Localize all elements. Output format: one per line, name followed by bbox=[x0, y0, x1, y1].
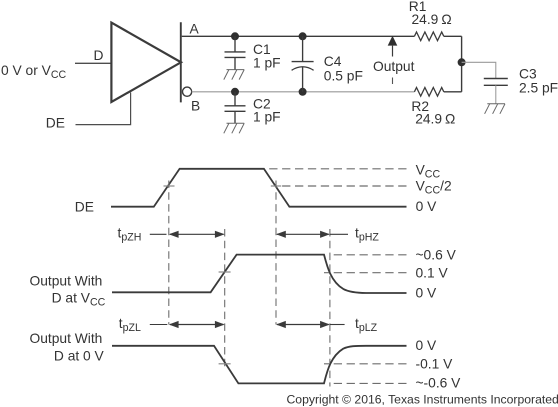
dashed level ~-0.6V bbox=[329, 382, 407, 384]
output bar bbox=[180, 22, 182, 102]
dashed level ~0.6V bbox=[331, 254, 407, 256]
driver U1 (triangle buffer) bbox=[111, 23, 181, 102]
wire R1 to join bbox=[444, 35, 462, 37]
wire A bbox=[182, 35, 415, 37]
svg-text:Output With: Output With bbox=[30, 331, 103, 346]
svg-text:C4: C4 bbox=[324, 54, 342, 69]
wire D input bbox=[75, 62, 111, 64]
output probe arrow bbox=[388, 36, 398, 46]
leader line tpZL bbox=[150, 324, 168, 326]
junction dot B-C2 bbox=[231, 88, 239, 96]
arrow tpLZ bbox=[277, 324, 329, 326]
svg-text:Copyright © 2016, Texas Instru: Copyright © 2016, Texas Instruments Inco… bbox=[287, 393, 558, 407]
svg-text:24.9Ω: 24.9Ω bbox=[412, 12, 452, 27]
tick output2 falling bbox=[219, 363, 231, 365]
capacitor C1 bbox=[225, 36, 246, 69]
svg-text:0 V or VCC: 0 V or VCC bbox=[1, 63, 67, 81]
capacitor C3 bbox=[484, 79, 508, 86]
junction dot B-C4 bbox=[299, 88, 307, 96]
svg-text:DE: DE bbox=[75, 199, 94, 214]
svg-text:A: A bbox=[190, 22, 200, 37]
svg-text:tpHZ: tpHZ bbox=[355, 226, 379, 244]
tick output1 rising bbox=[219, 271, 231, 273]
leader line tpZH bbox=[150, 233, 167, 235]
arrow tpHZ bbox=[277, 233, 329, 235]
svg-text:-0.1 V: -0.1 V bbox=[416, 356, 454, 371]
wire DE enable bbox=[76, 93, 131, 125]
capacitor C4 bbox=[292, 36, 314, 92]
svg-text:D: D bbox=[94, 48, 104, 63]
svg-text:2.5 pF: 2.5 pF bbox=[519, 81, 558, 96]
svg-text:0 V: 0 V bbox=[416, 338, 438, 353]
arrow tpZH bbox=[170, 233, 224, 235]
svg-text:tpZL: tpZL bbox=[119, 316, 141, 334]
inversion bubble bbox=[183, 87, 192, 96]
wire R2 right lead bbox=[444, 91, 462, 93]
svg-text:Output With: Output With bbox=[30, 273, 103, 288]
leader line tpHZ bbox=[330, 233, 348, 235]
dashed vertical v4 bbox=[329, 229, 331, 387]
output probe dashed tail bbox=[392, 78, 394, 85]
svg-text:0 V: 0 V bbox=[416, 286, 438, 301]
svg-text:tpZH: tpZH bbox=[118, 226, 142, 244]
svg-text:~-0.6 V: ~-0.6 V bbox=[416, 376, 462, 391]
junction dot A-C4 bbox=[299, 32, 307, 40]
capacitor C2 bbox=[225, 92, 246, 124]
ground (C2) bbox=[224, 123, 244, 133]
svg-text:VCC/2: VCC/2 bbox=[416, 178, 452, 196]
resistor R1 bbox=[414, 32, 443, 41]
wire B (from bubble) bbox=[192, 91, 415, 93]
svg-text:C3: C3 bbox=[519, 67, 537, 82]
svg-text:1 pF: 1 pF bbox=[253, 110, 281, 125]
waveform DE bbox=[111, 169, 407, 207]
svg-text:tpLZ: tpLZ bbox=[355, 316, 378, 334]
svg-text:~0.6 V: ~0.6 V bbox=[416, 247, 457, 262]
dashed level VCC bbox=[266, 168, 407, 170]
dashed level -0.1V bbox=[324, 363, 407, 365]
svg-text:DE: DE bbox=[46, 116, 65, 131]
svg-text:24.9Ω: 24.9Ω bbox=[415, 111, 455, 126]
svg-text:1 pF: 1 pF bbox=[253, 56, 281, 71]
junction dot output node bbox=[458, 58, 466, 66]
svg-text:D at VCC: D at VCC bbox=[52, 291, 106, 309]
dashed vertical v2 bbox=[224, 229, 226, 368]
dashed level 0.1V bbox=[324, 272, 407, 274]
dashed vertical v3 bbox=[275, 181, 277, 325]
wire node to C3 bbox=[462, 62, 496, 78]
svg-text:0.1 V: 0.1 V bbox=[416, 265, 449, 280]
dashed vertical v1 bbox=[168, 181, 170, 325]
dashed level VCC/2 bbox=[279, 185, 407, 187]
leader line tpLZ bbox=[330, 324, 345, 326]
svg-text:0 V: 0 V bbox=[416, 199, 438, 214]
resistor R2 bbox=[414, 88, 443, 97]
svg-text:Output: Output bbox=[373, 59, 415, 74]
arrow tpZL bbox=[170, 324, 224, 326]
ground (C1) bbox=[224, 70, 244, 80]
wire C3 to ground bbox=[495, 85, 497, 104]
svg-text:0.5 pF: 0.5 pF bbox=[324, 68, 363, 83]
waveform output with D at 0 V bbox=[112, 346, 407, 384]
junction dot A-C1 bbox=[231, 32, 239, 40]
tick DE falling mid bbox=[271, 185, 281, 187]
wire join vertical A-B bbox=[461, 36, 463, 92]
tick DE rising mid bbox=[164, 185, 175, 187]
svg-text:B: B bbox=[191, 98, 200, 113]
svg-text:D at 0 V: D at 0 V bbox=[54, 349, 105, 364]
ground (C3) bbox=[485, 104, 505, 114]
waveform output with D at VCC bbox=[112, 255, 407, 293]
